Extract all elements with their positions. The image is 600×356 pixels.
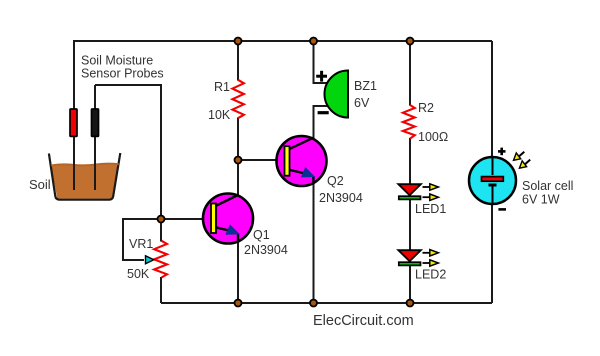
wire VR1 bottom xyxy=(160,277,162,303)
resistor R2 xyxy=(403,105,415,139)
svg-text:6V: 6V xyxy=(354,96,370,110)
wire bottom rail xyxy=(161,302,492,304)
svg-text:10K: 10K xyxy=(208,108,231,122)
wire VR1 body column xyxy=(160,219,162,242)
solar cell light arrow 2 xyxy=(519,160,530,169)
transistor Q1 xyxy=(203,194,253,244)
svg-text:Q2: Q2 xyxy=(327,174,344,188)
wire probe link xyxy=(95,84,161,86)
junction bottom rail at Q2 xyxy=(310,300,317,307)
wire left probe drop xyxy=(73,40,75,190)
svg-text:VR1: VR1 xyxy=(129,237,153,251)
wire buzzer minus lead and Q2 column xyxy=(314,106,330,303)
svg-text:Solar cell: Solar cell xyxy=(522,179,573,193)
junction bottom rail at Q1 xyxy=(235,300,242,307)
wire buzzer plus lead xyxy=(314,40,330,83)
solar cell minus sign xyxy=(498,208,506,211)
LED2 xyxy=(398,250,438,267)
potentiometer VR1 xyxy=(146,241,168,278)
buzzer BZ1 xyxy=(324,71,348,118)
junction bottom rail at R2 xyxy=(407,300,414,307)
wire Q2 base xyxy=(238,159,286,161)
solar cell xyxy=(469,157,516,204)
buzzer plus sign xyxy=(316,71,327,82)
junction top rail at buzzer xyxy=(310,38,317,45)
svg-text:100Ω: 100Ω xyxy=(418,130,448,144)
svg-text:6V 1W: 6V 1W xyxy=(522,193,560,207)
wire Q1 base xyxy=(161,218,212,220)
wire R2 branch xyxy=(409,41,411,106)
wire solar cell branch xyxy=(491,41,493,303)
probe black xyxy=(92,109,99,190)
svg-text:50K: 50K xyxy=(127,267,150,281)
svg-text:ElecCircuit.com: ElecCircuit.com xyxy=(313,313,414,329)
wire sensor column to VR1 junction xyxy=(160,84,162,219)
svg-text:Sensor Probes: Sensor Probes xyxy=(81,67,164,81)
svg-text:BZ1: BZ1 xyxy=(354,79,377,93)
transistor Q2 xyxy=(277,136,327,186)
svg-text:2N3904: 2N3904 xyxy=(244,243,288,257)
svg-text:LED1: LED1 xyxy=(415,202,446,216)
buzzer minus sign xyxy=(318,111,329,114)
LED1 xyxy=(398,184,438,201)
solar cell light arrow 1 xyxy=(514,152,525,161)
wire R1 branch top xyxy=(237,41,239,81)
svg-text:R2: R2 xyxy=(418,101,434,115)
soil cup xyxy=(49,153,120,200)
svg-text:LED2: LED2 xyxy=(415,268,446,282)
probe red xyxy=(70,109,77,190)
svg-text:Soil: Soil xyxy=(29,177,51,192)
svg-text:R1: R1 xyxy=(214,80,230,94)
wire R2 to LEDs xyxy=(409,138,411,303)
solar cell plus sign xyxy=(498,148,506,156)
svg-text:Soil Moisture: Soil Moisture xyxy=(81,54,153,68)
junction VR1 xyxy=(158,216,165,223)
wire top rail xyxy=(74,40,492,42)
wire black probe drop xyxy=(94,85,96,190)
junction top rail at R1 xyxy=(235,38,242,45)
junction top rail at R2 xyxy=(407,38,414,45)
wire VR1 wiper loop xyxy=(123,219,161,260)
svg-text:Q1: Q1 xyxy=(253,228,270,242)
svg-text:2N3904: 2N3904 xyxy=(319,191,363,205)
resistor R1 xyxy=(232,80,244,118)
junction R1 Q2 base xyxy=(235,157,242,164)
wire R1 to Q1 column xyxy=(237,118,239,304)
